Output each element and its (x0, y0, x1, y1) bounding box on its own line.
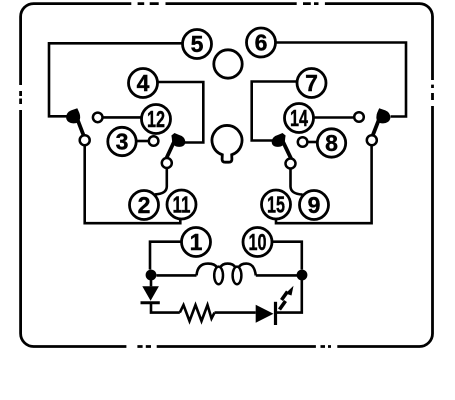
contact A (fixed, pin5 side) (66, 108, 80, 123)
wire LED to right junction (277, 280, 302, 313)
resistor R (180, 305, 215, 321)
svg-text:2: 2 (138, 192, 151, 218)
svg-text:12: 12 (147, 106, 165, 132)
pin 10 (243, 228, 272, 257)
wire left junction to coil (157, 274, 197, 277)
svg-text:3: 3 (116, 129, 129, 155)
wire pivot A to pin11 (85, 145, 181, 224)
svg-text:1: 1 (190, 229, 203, 255)
wire pivot D to pin15 (276, 145, 372, 224)
wire pin4 to contact B (158, 82, 204, 143)
svg-text:9: 9 (308, 192, 321, 218)
pin 5 (183, 30, 212, 59)
pin 15 (262, 190, 291, 219)
switch lever C (281, 137, 292, 160)
wire pin6 to contact D (276, 43, 407, 117)
wire pin3 to NO-B (137, 140, 149, 143)
pin 3 (108, 127, 136, 155)
wire pin14 to NO-D (314, 116, 355, 119)
wire pin1 to left junction (150, 242, 182, 270)
svg-text:14: 14 (290, 105, 308, 131)
contact C (fixed, pin7 side) (272, 133, 286, 147)
switch lever B (166, 137, 177, 160)
pin 12 (142, 105, 171, 134)
svg-text:11: 11 (173, 192, 191, 218)
pin 1 (182, 228, 211, 257)
wire pin7 to contact C (252, 82, 297, 141)
NO contact A (to pin12) (93, 113, 103, 123)
wire resistor to LED (215, 311, 256, 314)
coil L (197, 264, 256, 276)
mounting hole (top center) (214, 50, 242, 78)
pin 4 (129, 69, 158, 98)
pin 11 (167, 190, 196, 219)
svg-text:5: 5 (191, 31, 204, 57)
pivot A (80, 135, 90, 145)
LED light arrow (280, 301, 286, 310)
wire pivot C to pin9 (291, 168, 303, 195)
switch lever D (372, 113, 381, 137)
pin 7 (297, 69, 326, 98)
wire NO-C to pin8 (307, 141, 317, 144)
LED indicator (256, 305, 274, 323)
svg-text:4: 4 (137, 70, 150, 96)
wire pivot B to pin2 (155, 168, 167, 195)
svg-text:15: 15 (267, 192, 285, 218)
NO contact C (to pin8) (298, 137, 308, 147)
pivot C (286, 159, 296, 169)
wire diode to bottom rail (151, 303, 180, 313)
pin 2 (130, 191, 159, 220)
NO contact B (to pin3) (149, 136, 159, 146)
wire pin10 to right junction (272, 242, 302, 270)
junction dot right (297, 270, 308, 281)
wire NO-A to pin12 (103, 116, 142, 119)
diode D1 (surge absorbing) (142, 286, 159, 301)
junction dot left (146, 270, 157, 281)
contact D (fixed, pin6 side) (376, 108, 390, 123)
wire junction to diode (150, 280, 153, 286)
pin 14 (285, 104, 314, 133)
pivot B (162, 158, 172, 168)
pin 6 (247, 28, 276, 57)
wire coil to right junction (256, 274, 297, 277)
contact B (fixed, pin4 side) (171, 133, 185, 147)
svg-text:7: 7 (305, 70, 318, 96)
switch lever A (75, 113, 84, 137)
pin 8 (317, 129, 345, 157)
svg-text:8: 8 (325, 130, 338, 156)
svg-text:6: 6 (255, 30, 268, 56)
keyhole orientation mark (212, 125, 242, 162)
NO contact D (to pin14) (354, 112, 364, 122)
pivot D (367, 135, 377, 145)
wire pin5 to contact A (49, 43, 183, 116)
svg-text:10: 10 (249, 229, 267, 255)
pin 9 (300, 191, 329, 220)
